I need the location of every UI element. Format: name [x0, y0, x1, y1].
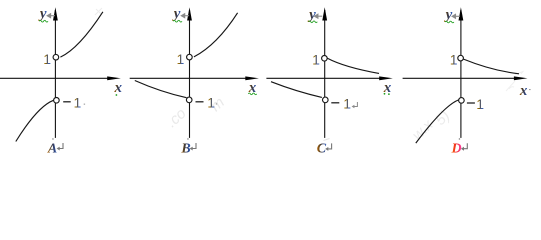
panel C y-axis: [324, 10, 326, 138]
panel C open circle at (0,-1): [323, 97, 329, 103]
svg-text:x: x: [519, 83, 528, 99]
panel D y-axis arrowhead: [459, 7, 464, 20]
svg-text:A: A: [47, 141, 57, 156]
panel A paragraph return mark: [57, 143, 63, 151]
panel A minus sign of -1: [63, 101, 70, 103]
panel A x-axis: [0, 77, 109, 79]
panel B x label: [248, 80, 257, 96]
svg-text:y: y: [307, 7, 316, 23]
panel A right branch curve: [60, 12, 103, 57]
panel C option letter C: [317, 141, 327, 156]
panel D left branch curve: [416, 100, 459, 143]
panel D x label: [519, 83, 528, 99]
svg-text:D: D: [451, 141, 462, 156]
panel A y label: [38, 6, 47, 22]
panel B x-axis arrowhead: [245, 76, 259, 80]
panel C green squiggle under y: [309, 21, 318, 23]
panel C y label: [307, 7, 316, 23]
panel A left branch curve: [16, 100, 54, 141]
svg-text:y: y: [172, 6, 181, 22]
panel D y label: [444, 7, 453, 23]
svg-text:1: 1: [177, 51, 185, 67]
panel D y-axis: [460, 10, 462, 138]
panel C paragraph return mark: [325, 143, 331, 151]
panel A green dot under x: [116, 94, 118, 96]
panel B x-axis: [130, 77, 247, 79]
svg-text:y: y: [38, 6, 47, 22]
watermark fragment near A curve top: [95, 8, 102, 15]
panel B green squiggle under y: [173, 20, 182, 22]
svg-text:1: 1: [476, 96, 484, 112]
panel C open circle at (0,1): [322, 56, 328, 62]
panel B minus sign of -1: [196, 101, 204, 103]
panel C x label: [383, 80, 392, 96]
panel B label 1: [177, 51, 185, 67]
artifact dot above option A: [52, 138, 53, 140]
panel C label 1: [312, 52, 320, 68]
panel D label -1 digit: [476, 96, 484, 112]
panel C formatting left-arrow after y: [315, 14, 323, 18]
panel A green squiggle under y: [39, 20, 48, 22]
svg-text:B: B: [180, 141, 190, 156]
panel D open circle at (0,-1): [459, 98, 465, 104]
watermark smudge above option C: [324, 139, 330, 141]
panel B y label: [172, 6, 181, 22]
panel C minus sign of -1: [331, 102, 339, 104]
panel B open circle at (0,1): [187, 54, 193, 60]
panel C x-axis: [266, 77, 381, 79]
panel C green dots under x: [384, 93, 390, 95]
artifact dot above option B: [187, 138, 188, 140]
panel A tiny mark after -1: [84, 104, 85, 105]
svg-text:1: 1: [450, 52, 458, 68]
panel B tiny mark after -1: [216, 103, 217, 104]
panel A x label: [114, 80, 123, 96]
panel B formatting left-arrow after y: [181, 14, 189, 18]
panel B y-axis: [189, 10, 191, 138]
panel C left branch curve: [271, 82, 322, 98]
panel A open circle at (0,1): [53, 54, 59, 60]
svg-text:y: y: [444, 7, 453, 23]
panel C return mark after -1: [352, 102, 358, 108]
panel D option letter D: [451, 141, 462, 156]
panel C label -1 digit: [343, 96, 351, 112]
svg-text:1: 1: [343, 96, 351, 112]
panel D tiny mark after x: [529, 89, 531, 90]
panel B green squiggle under x: [248, 93, 256, 95]
panel A option letter A: [47, 141, 57, 156]
panel A label 1: [43, 51, 51, 67]
panel D right branch curve: [464, 59, 520, 74]
panel D x-axis arrowhead: [514, 76, 528, 80]
panel D formatting left-arrow after y: [452, 14, 460, 18]
panel B left branch curve: [135, 81, 187, 98]
watermark fragment near D lower-left: [409, 107, 453, 143]
panel D minus sign of -1: [467, 102, 475, 104]
watermark fragment near B lower area: [163, 94, 228, 131]
panel C y-axis arrowhead: [322, 7, 327, 20]
panel D paragraph return mark: [461, 143, 467, 151]
panel B option letter B: [180, 141, 190, 156]
svg-text:1: 1: [43, 51, 51, 67]
svg-text:1: 1: [74, 95, 82, 111]
panel A open circle at (0,-1): [54, 98, 60, 104]
svg-text:1: 1: [207, 94, 215, 110]
panel D label 1: [450, 52, 458, 68]
panel A formatting left-arrow after y: [47, 14, 55, 18]
panel A label -1 digit: [74, 95, 82, 111]
artifact dot above option D: [459, 138, 460, 140]
panel B label -1 digit: [207, 94, 215, 110]
panel C x-axis arrowhead: [379, 76, 393, 80]
svg-text:x: x: [114, 80, 123, 96]
panel D green squiggle under y: [445, 21, 454, 23]
panel B open circle at (0,-1): [186, 97, 192, 103]
panel B y-axis arrowhead: [187, 7, 192, 20]
panel D open circle at (0,1): [458, 55, 464, 61]
panel A y-axis arrowhead: [53, 7, 58, 20]
watermark fragment near D x-axis arrow: [506, 72, 523, 92]
svg-text:1: 1: [312, 52, 320, 68]
panel A y-axis: [54, 10, 56, 138]
panel C right branch curve: [327, 58, 379, 73]
panel D x-axis: [403, 77, 516, 79]
panel B right branch curve: [194, 13, 238, 57]
panel B paragraph return mark: [190, 143, 196, 151]
panel A x-axis arrowhead: [107, 76, 121, 80]
